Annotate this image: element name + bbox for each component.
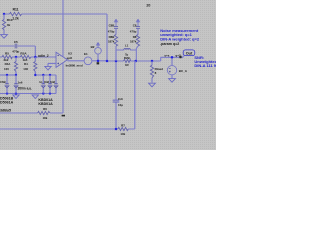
node junctions on rails bbox=[6, 74, 51, 95]
node junction (116,129) bbox=[115, 128, 118, 131]
resistor R11 bbox=[10, 12, 22, 15]
ground (BC_A) bbox=[169, 79, 176, 83]
svg-text:E1: E1 bbox=[84, 52, 88, 56]
svg-text:R7: R7 bbox=[121, 124, 125, 128]
resistor R5A bbox=[20, 55, 31, 58]
wire rail y=50 bbox=[116, 50, 136, 61]
wire bottom net y=129 bbox=[0, 128, 118, 130]
wire supply rail x=63 top bbox=[62, 0, 64, 57]
wire opamp +in to ground bbox=[48, 63, 56, 66]
svg-text:4k: 4k bbox=[7, 23, 11, 27]
node junction at (16,57) bbox=[15, 56, 18, 59]
svg-text:8n8: 8n8 bbox=[44, 80, 49, 84]
wire y=113 net bbox=[0, 112, 63, 114]
svg-text:L1: L1 bbox=[125, 43, 129, 47]
svg-text:U2: U2 bbox=[68, 51, 72, 55]
svg-text:C8: C8 bbox=[133, 23, 137, 27]
wire opamp output bbox=[67, 60, 84, 62]
svg-text:6n8: 6n8 bbox=[50, 80, 55, 84]
resistor R6 (series y=113) bbox=[38, 111, 50, 114]
svg-text:D5061A: D5061A bbox=[0, 100, 14, 104]
wire bottom rail y=93.5 bbox=[0, 93, 56, 95]
resistor R8B (vertical x=116) bbox=[114, 35, 117, 47]
svg-text:Cdi: Cdi bbox=[118, 97, 123, 101]
svg-text:C8B: C8B bbox=[109, 23, 115, 27]
capacitor branch x=50 bbox=[49, 75, 51, 94]
resistor R4 (vertical x=35.3) bbox=[34, 62, 37, 72]
capacitor branch x=43.3 bbox=[42, 75, 44, 94]
svg-text:Out: Out bbox=[186, 52, 193, 56]
svg-text:470p: 470p bbox=[108, 29, 115, 33]
svg-text:470p: 470p bbox=[12, 49, 19, 53]
inductor L1 bbox=[124, 48, 130, 50]
svg-text:200m a.u.: 200m a.u. bbox=[18, 86, 33, 90]
wire supply rail x=63 bottom bbox=[62, 63, 64, 113]
capacitor C5 bbox=[15, 44, 17, 49]
node junction at (34,57) bbox=[34, 56, 37, 59]
svg-text:187k: 187k bbox=[108, 40, 115, 44]
svg-text:10k: 10k bbox=[120, 132, 125, 136]
source E1 bbox=[84, 57, 92, 65]
node junction at (98,61) bbox=[97, 60, 100, 63]
ground (opamp +in) bbox=[45, 66, 51, 70]
wire shunt branch x=16 bbox=[15, 57, 17, 75]
svg-text:R11: R11 bbox=[13, 7, 19, 11]
wire x=116 column bbox=[115, 28, 117, 129]
capacitor C8 (x=56 corner branch) bbox=[54, 84, 58, 88]
wire y=57 net bbox=[0, 56, 56, 58]
wire x=138 column bbox=[136, 28, 138, 50]
node junction (152,61) bbox=[151, 60, 154, 63]
ground (Rload) bbox=[149, 83, 156, 87]
resistor R4A (vertical x=16) bbox=[14, 62, 17, 72]
tick mark near (63,115) bbox=[62, 115, 65, 117]
capacitor C6 bbox=[14, 84, 18, 88]
svg-text:odin_2: odin_2 bbox=[38, 54, 49, 58]
flag arrow x=138 bbox=[136, 19, 140, 26]
ground (rail x=16) bbox=[13, 95, 19, 99]
svg-text:R8B: R8B bbox=[109, 35, 115, 39]
capacitor C8B upper bbox=[114, 26, 118, 28]
svg-text:ep8: ep8 bbox=[67, 56, 73, 60]
svg-text:470p: 470p bbox=[130, 29, 137, 33]
node junction (116,61) bbox=[115, 60, 118, 63]
resistor R8 (vertical x=138) bbox=[136, 35, 139, 47]
svg-text:18k: 18k bbox=[43, 116, 48, 120]
node junction (135.5,61) bbox=[134, 60, 137, 63]
svg-text:y=x: y=x bbox=[164, 53, 169, 57]
wire y=61 main net bbox=[92, 56, 183, 61]
resistor R10 bbox=[2, 20, 5, 30]
capacitor C8B bbox=[42, 84, 46, 88]
node junction at (4,14) bbox=[3, 13, 6, 16]
svg-text:10µ: 10µ bbox=[118, 103, 123, 107]
capacitor C8 upper bbox=[136, 26, 140, 28]
svg-text:3dBu5: 3dBu5 bbox=[0, 109, 11, 113]
capacitor C8A bbox=[48, 84, 52, 88]
svg-text:R5: R5 bbox=[5, 52, 9, 56]
wire top net y=14 bbox=[4, 13, 107, 15]
resistor R5 bbox=[2, 55, 12, 58]
resistor R2B (series y=61) bbox=[124, 60, 131, 63]
svg-text:BC_A: BC_A bbox=[179, 69, 188, 73]
svg-text:R8: R8 bbox=[133, 35, 137, 39]
svg-text:.param q=2: .param q=2 bbox=[160, 42, 179, 46]
wire mid rail y=75 right segment bbox=[35, 75, 56, 94]
flag arrow x=116 bbox=[114, 19, 118, 26]
wire shunt branch x=35.3 bbox=[34, 57, 36, 75]
net flag Out bbox=[183, 50, 195, 56]
svg-text:R6: R6 bbox=[43, 107, 47, 111]
capacitor Cdi bbox=[113, 100, 120, 102]
op-amp U2 bbox=[56, 52, 67, 67]
svg-text:R4: R4 bbox=[24, 62, 28, 66]
source BC_A behavioral bbox=[167, 66, 176, 75]
svg-text:1.2k: 1.2k bbox=[12, 16, 19, 20]
capacitor branch x=16 bbox=[15, 75, 17, 94]
wire mid rail y=75 left segment bbox=[0, 74, 16, 76]
wire x=107 vertical bbox=[106, 14, 108, 61]
svg-text:B2: B2 bbox=[91, 45, 95, 49]
svg-text:R10: R10 bbox=[7, 18, 13, 22]
wire R10 branch bbox=[3, 14, 5, 34]
wire Rload branch bbox=[151, 61, 153, 83]
svg-text:lm3886_mod: lm3886_mod bbox=[66, 63, 83, 67]
wire B2 to net bbox=[97, 54, 99, 61]
svg-text:C5: C5 bbox=[14, 40, 18, 44]
svg-text:C6B: C6B bbox=[0, 80, 6, 84]
ground (R10) bbox=[1, 35, 8, 39]
svg-text:20: 20 bbox=[146, 4, 150, 8]
svg-text:R2B: R2B bbox=[124, 56, 130, 60]
svg-text:1n: 1n bbox=[39, 80, 43, 84]
svg-text:DIN-A weighted: q=2: DIN-A weighted: q=2 bbox=[160, 37, 200, 42]
capacitor C6B bbox=[5, 84, 9, 88]
svg-text:R5A: R5A bbox=[20, 52, 27, 56]
svg-text:DIN-A 111 96dB: DIN-A 111 96dB bbox=[194, 63, 216, 68]
node junction at (107,61) bbox=[106, 60, 109, 63]
capacitor branch x=7 bbox=[6, 75, 8, 94]
wire x=134.8 vertical to bottom bbox=[128, 61, 135, 129]
svg-text:187k: 187k bbox=[130, 40, 137, 44]
svg-text:100: 100 bbox=[4, 67, 9, 71]
background grid bbox=[0, 0, 216, 150]
svg-text:KBD01A: KBD01A bbox=[38, 102, 53, 106]
svg-text:R4A: R4A bbox=[5, 62, 12, 66]
wire y=46 net bbox=[0, 46, 35, 57]
svg-text:1n6: 1n6 bbox=[18, 80, 23, 84]
ground (rail x=35.3) bbox=[32, 95, 38, 99]
resistor Rload bbox=[150, 65, 153, 78]
resistor R7 (series y=129) bbox=[118, 127, 128, 130]
svg-text:130: 130 bbox=[23, 67, 28, 71]
source B2 current bbox=[95, 48, 102, 55]
